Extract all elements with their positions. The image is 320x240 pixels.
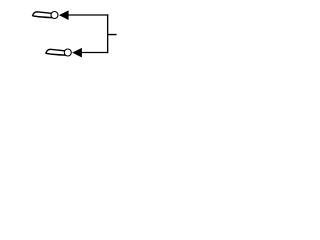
plug P2 arrowhead	[72, 48, 82, 58]
plug P2 (bottom)	[46, 48, 82, 58]
plug P1 (top)	[33, 10, 69, 20]
plug P1 handle	[33, 12, 53, 18]
wire stub (common node)	[108, 34, 117, 36]
plug P1 ring	[51, 12, 58, 19]
wire top: P1 to corner	[68, 14, 108, 16]
wire vertical bus	[107, 14, 109, 53]
plug P2 ring	[64, 49, 71, 56]
plug P2 handle	[46, 49, 66, 55]
plug P1 arrowhead	[59, 10, 69, 20]
wire bottom: P2 to corner	[81, 52, 108, 54]
